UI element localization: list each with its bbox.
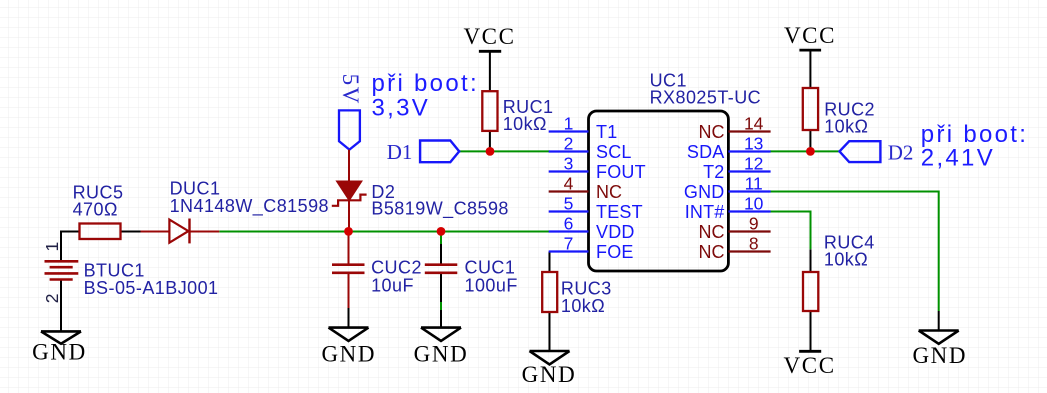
wire right GND drop [938, 311, 940, 331]
pin 4 NC [549, 190, 589, 192]
wire battery bottom to GND [60, 280, 62, 332]
wire VCC to RUC2 [809, 50, 811, 88]
svg-text:2,41V: 2,41V [921, 145, 995, 172]
svg-text:VCC: VCC [463, 24, 515, 49]
wire battery top to RUC5 [61, 232, 80, 262]
pin 2 SCL [549, 150, 589, 152]
svg-text:100uF: 100uF [465, 275, 518, 295]
pin 7 FOE [549, 250, 589, 252]
svg-text:11: 11 [745, 174, 763, 194]
svg-text:3: 3 [564, 154, 574, 174]
svg-text:NC: NC [699, 122, 725, 142]
resistor RUC4 [803, 272, 818, 311]
wire INT# to RUC4 [770, 212, 811, 250]
svg-text:VCC: VCC [784, 353, 836, 378]
wire SDA to D2 [770, 150, 840, 152]
pin 5 TEST [549, 210, 589, 212]
svg-text:D2: D2 [888, 141, 914, 165]
svg-text:5V: 5V [338, 74, 363, 105]
wire RUC4 to VCC [810, 311, 812, 351]
IC UC1 RX8025T-UC body [589, 111, 729, 271]
resistor RUC1 [482, 91, 497, 131]
pin 11 GND [728, 190, 770, 192]
ground CUC2 [329, 328, 369, 341]
svg-text:NC: NC [699, 222, 725, 242]
resistor RUC5 [80, 224, 121, 240]
wire VCC to RUC1 [489, 51, 491, 91]
svg-text:10kΩ: 10kΩ [824, 117, 868, 137]
svg-text:9: 9 [749, 214, 759, 234]
pin 14 NC [728, 130, 770, 132]
svg-text:GND: GND [912, 343, 967, 368]
ground far right [919, 331, 959, 344]
svg-text:T2: T2 [703, 162, 724, 182]
svg-text:NC: NC [596, 182, 622, 202]
port D2 [840, 141, 881, 162]
resistor RUC3 [542, 272, 557, 312]
ground RUC3 [530, 351, 570, 364]
svg-text:4: 4 [564, 174, 574, 194]
svg-text:1N4148W_C81598: 1N4148W_C81598 [170, 196, 329, 217]
junction node SDA [806, 147, 815, 156]
svg-text:2: 2 [42, 294, 62, 304]
svg-text:TEST: TEST [596, 202, 643, 222]
svg-text:GND: GND [414, 342, 469, 367]
svg-text:10kΩ: 10kΩ [561, 296, 605, 316]
svg-text:1: 1 [42, 242, 62, 252]
wire RUC5 to DUC1 [121, 231, 141, 233]
capacitor CUC1 [425, 265, 458, 273]
svg-text:B5819W_C8598: B5819W_C8598 [371, 198, 509, 219]
svg-text:SDA: SDA [687, 142, 725, 162]
svg-text:T1: T1 [596, 122, 617, 142]
svg-text:13: 13 [744, 134, 763, 154]
svg-text:SCL: SCL [596, 142, 632, 162]
svg-text:12: 12 [744, 154, 763, 174]
junction node SCL [486, 147, 495, 156]
wire to RUC4 top [810, 249, 812, 272]
svg-text:GND: GND [321, 342, 376, 367]
resistor RUC2 [803, 88, 818, 130]
svg-text:2: 2 [564, 134, 574, 154]
svg-text:10: 10 [744, 194, 764, 214]
svg-text:6: 6 [564, 214, 574, 234]
wire VDD net [219, 231, 549, 233]
ground battery [41, 331, 81, 343]
capacitor CUC2 [348, 232, 350, 309]
diode D2 [348, 150, 350, 232]
pin 12 T2 [728, 170, 770, 172]
ground CUC1 [421, 328, 461, 341]
svg-text:14: 14 [744, 114, 764, 134]
battery BTUC1 [45, 261, 79, 279]
svg-text:3,3V: 3,3V [372, 94, 431, 121]
pin 6 VDD [549, 230, 589, 232]
svg-text:FOE: FOE [596, 242, 634, 262]
wire D1 to SCL [459, 150, 550, 152]
svg-text:NC: NC [699, 242, 725, 262]
svg-text:GND: GND [32, 340, 87, 365]
svg-text:D1: D1 [387, 140, 413, 164]
wire CUC1 to GND [440, 273, 442, 328]
svg-text:5: 5 [564, 194, 574, 214]
svg-text:INT#: INT# [685, 202, 725, 222]
svg-text:při boot:: při boot: [372, 70, 479, 97]
wire CUC1 bottom stub [440, 302, 442, 310]
svg-text:GND: GND [522, 362, 577, 387]
pin 1 T1 [549, 130, 589, 132]
pin 9 NC [728, 230, 770, 232]
svg-text:1: 1 [564, 114, 574, 134]
svg-text:7: 7 [564, 234, 574, 254]
wire RUC3 to GND [549, 312, 551, 351]
pin 10 INT# [728, 210, 770, 212]
diode DUC1 [141, 231, 220, 233]
junction node VDD-CUC2 [344, 227, 353, 236]
wire CUC2 to GND [348, 308, 350, 328]
svg-text:VCC: VCC [784, 23, 836, 48]
pin 13 SDA [728, 150, 770, 152]
svg-text:8: 8 [749, 234, 759, 254]
wire RUC1 to node [489, 131, 491, 152]
svg-text:470Ω: 470Ω [73, 199, 118, 219]
junction node VDD-CUC1 [437, 227, 446, 236]
svg-text:RX8025T-UC: RX8025T-UC [650, 88, 762, 108]
svg-text:10kΩ: 10kΩ [824, 250, 868, 270]
svg-text:GND: GND [684, 182, 725, 202]
power VCC bottom [799, 350, 821, 353]
svg-text:10uF: 10uF [371, 275, 414, 295]
wire CUC1 top stub [440, 232, 442, 245]
netflag 5V [339, 110, 360, 149]
svg-text:CUC1: CUC1 [465, 257, 516, 277]
wire GND pin to right GND [770, 192, 939, 312]
pin 8 NC [728, 250, 770, 252]
svg-text:10kΩ: 10kΩ [503, 114, 547, 134]
wire FOE to RUC3 [549, 252, 551, 273]
pin 3 FOUT [549, 170, 589, 172]
svg-text:VDD: VDD [596, 222, 635, 242]
svg-text:CUC2: CUC2 [371, 257, 422, 277]
svg-text:BS-05-A1BJ001: BS-05-A1BJ001 [84, 278, 219, 298]
wire node to CUC1 [440, 244, 442, 265]
wire RUC2 to node [809, 130, 811, 151]
svg-text:FOUT: FOUT [596, 162, 646, 182]
